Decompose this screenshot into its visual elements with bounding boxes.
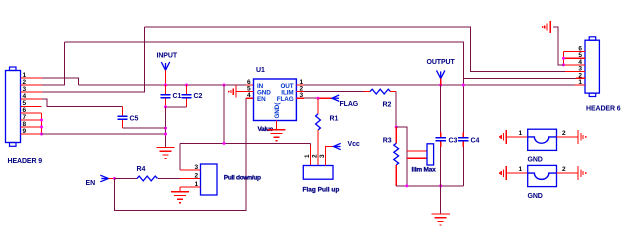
wire EN stub <box>109 178 115 180</box>
wire OUTPUT stub <box>440 79 442 86</box>
svg-text:2: 2 <box>312 154 319 158</box>
jumper block Ilim Max <box>412 144 437 174</box>
wire inner top bus to C4/output junction <box>65 42 464 78</box>
wire bottom ground rail <box>396 185 463 187</box>
wire down to flag block pin1 <box>310 143 312 145</box>
svg-text:FLAG: FLAG <box>277 96 294 103</box>
wire inner bus down to C4 <box>462 78 464 132</box>
port INPUT arrow <box>161 62 169 70</box>
svg-text:C5: C5 <box>130 116 139 123</box>
input rail wire <box>79 84 247 86</box>
wire flag block pin3 to Vcc <box>326 147 334 166</box>
node R3 top junction <box>395 126 398 129</box>
wire Ilim branch <box>396 127 407 186</box>
header 9 pin stubs <box>21 78 43 134</box>
svg-text:EN: EN <box>86 180 96 187</box>
svg-text:2: 2 <box>195 173 199 180</box>
wire FLAG net <box>304 97 318 99</box>
node pulldown net junction <box>223 142 226 145</box>
capacitor C3 <box>436 85 458 186</box>
node C1 bottom junction <box>164 105 167 108</box>
svg-text:Flag Pull up: Flag Pull up <box>303 187 340 194</box>
ground at output <box>432 214 450 225</box>
wire ground tie line to C1 ground rail <box>42 133 166 135</box>
U1 pin names <box>257 83 294 119</box>
jumper block GND 2 <box>499 165 587 200</box>
node pulldown net junction on input rail <box>223 84 226 87</box>
resistor R4 <box>137 166 158 181</box>
svg-text:C2: C2 <box>194 93 203 100</box>
U1 left pin stubs <box>237 91 254 93</box>
svg-text:R4: R4 <box>137 166 146 173</box>
header 6 pin stubs <box>564 52 586 86</box>
ground under C1 <box>156 148 174 159</box>
port FLAG arrow <box>332 95 339 101</box>
svg-text:EN: EN <box>257 96 266 103</box>
wire to Ilim block pins <box>407 151 427 158</box>
node FLAG junction <box>317 97 320 100</box>
wire down to pull block pin3 <box>179 143 181 170</box>
svg-text:2: 2 <box>562 166 566 173</box>
wire inner bus branch to header6 pin2 <box>463 77 576 79</box>
jumper block Flag Pull up <box>303 154 340 194</box>
wire pin3 to outer top bus <box>42 27 145 92</box>
svg-text:U1: U1 <box>256 67 265 74</box>
wire INPUT stub <box>165 70 167 85</box>
wire C1-C2 bottom rail <box>166 106 187 108</box>
svg-text:3: 3 <box>300 92 304 99</box>
output rail wire <box>304 84 575 86</box>
svg-text:R1: R1 <box>330 116 339 123</box>
wire red tie pins 6-9 <box>41 113 43 134</box>
wire R4 to pull block pin2 <box>158 178 180 180</box>
svg-text:OUTPUT: OUTPUT <box>427 59 456 66</box>
ground sideways at U1 GND pin <box>231 86 236 98</box>
capacitor C2 <box>181 85 202 107</box>
node tie line junction <box>164 133 167 136</box>
node input/C1 junction <box>164 84 167 87</box>
header J2 HEADER 6 connector body <box>585 37 599 97</box>
port Vcc arrow <box>334 143 341 149</box>
node C5 bottom junction <box>164 127 167 130</box>
svg-text:4: 4 <box>247 92 251 99</box>
wire outer top bus to header6 pin3 <box>145 27 566 72</box>
svg-text:GND: GND <box>528 157 543 164</box>
svg-text:GND: GND <box>528 193 543 200</box>
header 6 pin numbers <box>578 46 582 87</box>
svg-text:3: 3 <box>195 164 199 171</box>
wire drop from input rail to pulldown net <box>223 85 225 143</box>
wire R2 right down to R3 <box>390 91 396 93</box>
capacitor C1 <box>160 85 181 107</box>
ground under pull block pin1 <box>171 192 189 203</box>
junction dots on tie <box>40 119 43 136</box>
svg-text:FLAG: FLAG <box>340 101 359 108</box>
wire ILIM net to R2 <box>304 91 364 93</box>
node C3 bottom junction <box>439 184 442 187</box>
node ilim branch bottom junction <box>405 184 408 187</box>
resistor R3 <box>383 127 399 186</box>
svg-text:R2: R2 <box>383 101 392 108</box>
svg-text:1: 1 <box>519 166 523 173</box>
header 9 pin numbers 1-9 <box>23 72 27 135</box>
U1 right pin stubs <box>296 85 304 98</box>
node inner bus junction <box>462 84 465 87</box>
svg-text:R3: R3 <box>383 137 392 144</box>
svg-text:Vcc: Vcc <box>348 141 360 148</box>
ground sideways top right <box>545 21 550 33</box>
svg-text:HEADER 9: HEADER 9 <box>8 158 43 165</box>
wire red into U1 pin6 <box>246 84 254 86</box>
jumper block Pull down/up <box>180 164 261 195</box>
jumper block GND 1 <box>499 129 587 163</box>
svg-text:Ilim Max: Ilim Max <box>412 167 437 174</box>
wire C5 bottom bend to ground rail <box>123 127 166 129</box>
svg-text:1: 1 <box>304 154 311 158</box>
header J1 HEADER 9 connector body <box>6 67 21 146</box>
port EN arrow <box>100 175 108 182</box>
wire C1 down to ground <box>165 107 167 148</box>
wire output ground drop <box>440 186 442 214</box>
wire red tie header6 pins 6-4 <box>563 52 565 65</box>
wire EN to R4 <box>115 178 138 180</box>
svg-text:C4: C4 <box>471 137 480 144</box>
ground under U1 <box>267 130 285 141</box>
node output arrow junction <box>439 84 442 87</box>
U1 pin numbers <box>247 79 304 99</box>
svg-text:INPUT: INPUT <box>157 53 178 60</box>
resistor R1 <box>316 98 339 165</box>
svg-text:GND(: GND( <box>274 102 281 119</box>
svg-text:1: 1 <box>195 181 199 188</box>
wire pin1 to input rail jog <box>42 78 79 85</box>
svg-text:1: 1 <box>519 130 523 137</box>
wire U1 bottom GND pin <box>276 121 278 130</box>
wire pin4 jog to C5 <box>42 99 123 107</box>
wire EN loop down and around to U1 EN pin <box>115 98 247 210</box>
wire pull block pin1 to ground <box>179 187 181 192</box>
wire header6 gnd loop <box>553 27 564 65</box>
node C2 junction <box>185 84 188 87</box>
op IC U1 body <box>254 67 297 120</box>
wire pulldown net horizontal <box>180 142 311 144</box>
svg-text:HEADER 6: HEADER 6 <box>586 106 621 113</box>
node tie junctions <box>562 57 565 60</box>
svg-text:2: 2 <box>562 130 566 137</box>
capacitor C5 <box>117 107 138 129</box>
svg-text:Pull down/up: Pull down/up <box>224 175 261 182</box>
wire pin2 up to inner top bus <box>42 42 65 85</box>
capacitor C4 <box>458 133 479 186</box>
svg-text:C1: C1 <box>173 93 182 100</box>
resistor R2 <box>370 89 391 108</box>
port OUTPUT arrow <box>437 70 445 78</box>
node EN junction <box>113 177 116 180</box>
svg-text:C3: C3 <box>449 137 458 144</box>
